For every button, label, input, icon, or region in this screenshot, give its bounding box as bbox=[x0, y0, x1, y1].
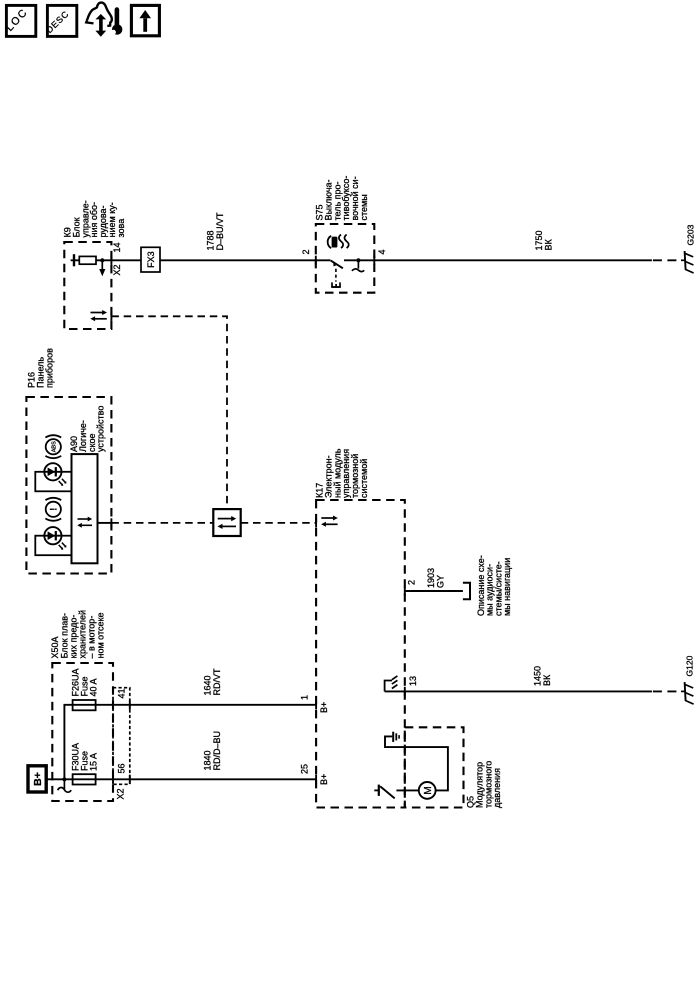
wire 1640 from fuse F26UA to K17 pin 1 bbox=[73, 704, 317, 706]
serial data symbol in K9 bbox=[90, 310, 107, 321]
svg-text:13: 13 bbox=[408, 676, 418, 686]
block X50A fuse block dashed box bbox=[52, 663, 113, 801]
svg-text:56: 56 bbox=[117, 763, 127, 773]
relay contact in K17 bbox=[374, 785, 394, 799]
label wire 1903 GY bbox=[426, 568, 445, 588]
ground hook inside K17 pin 13 bbox=[385, 676, 398, 692]
wire from relay contact to pump motor bbox=[396, 789, 418, 791]
label wire 1450 BK bbox=[533, 666, 552, 686]
svg-text:GY: GY bbox=[435, 575, 445, 588]
fuse F30UA bbox=[73, 774, 96, 784]
icon LOC button bbox=[4, 5, 36, 36]
svg-text:!: ! bbox=[48, 508, 58, 511]
pin tick X2 pin 56 right bbox=[129, 775, 131, 784]
pin tick K17 pin 25 bbox=[315, 775, 317, 784]
svg-text:1: 1 bbox=[300, 695, 310, 700]
pin tick K17 pin 13 bbox=[404, 687, 406, 696]
pin tick S75 pin 2 bbox=[315, 256, 317, 265]
svg-text:устройство: устройство bbox=[96, 406, 106, 452]
LED lamp ABS bbox=[44, 463, 66, 486]
svg-text:15 A: 15 A bbox=[88, 753, 98, 771]
svg-text:X2: X2 bbox=[116, 788, 126, 799]
node splice at B+ feed bbox=[62, 777, 66, 781]
label ground G120 bbox=[685, 655, 695, 676]
pin tick X2 pin 56 left bbox=[112, 775, 114, 784]
svg-text:ABS: ABS bbox=[52, 441, 58, 452]
telltale brake symbol bbox=[45, 498, 61, 521]
label Q5 block name bbox=[466, 761, 503, 808]
label B+ at pin 1 bbox=[319, 702, 329, 713]
svg-text:давления: давления bbox=[492, 768, 502, 808]
block K9 body control module dashed box bbox=[64, 242, 111, 329]
svg-text:FX3: FX3 bbox=[146, 251, 156, 268]
fuse F26UA bbox=[73, 700, 96, 710]
in-line connector with serial data symbol bbox=[213, 509, 240, 536]
actuator dashed link S75 bbox=[335, 269, 337, 282]
svg-text:RD/D–BU: RD/D–BU bbox=[212, 731, 222, 771]
wire from pump motor to earth ground in Q5 bbox=[385, 736, 448, 790]
svg-text:B+: B+ bbox=[319, 702, 329, 713]
label pin 41 bbox=[117, 688, 127, 698]
svg-text:ВК: ВК bbox=[543, 238, 553, 250]
svg-text:системой: системой bbox=[359, 459, 369, 498]
svg-text:G120: G120 bbox=[685, 655, 695, 676]
label A90 device name bbox=[69, 406, 106, 452]
label wire 1788 D-BU/VT bbox=[206, 212, 225, 251]
pin tick K17 pin 1 bbox=[315, 700, 317, 709]
label audio navigation description reference bbox=[476, 555, 512, 616]
label pin 2 S75 bbox=[301, 249, 311, 254]
svg-text:25: 25 bbox=[300, 764, 310, 774]
svg-text:ном отсеке: ном отсеке bbox=[96, 612, 106, 658]
svg-text:M: M bbox=[423, 786, 434, 794]
wire 1903 from K17 pin 2 to audio system reference bbox=[405, 590, 463, 592]
svg-text:B+: B+ bbox=[319, 774, 329, 785]
label wire 1640 RD/VT bbox=[203, 668, 222, 696]
wire B+ feed to fuse F30UA bbox=[46, 778, 72, 780]
terminal B+ battery feed box bbox=[28, 766, 46, 792]
svg-text:4: 4 bbox=[377, 249, 387, 254]
unfused supply squiggle below splice bbox=[58, 779, 72, 792]
traction control icon in S75 bbox=[328, 235, 349, 249]
label pin 14 bbox=[112, 242, 122, 252]
wire 1788 main run from K9 to S75 switch bbox=[74, 259, 331, 261]
resistor element in K9 bbox=[79, 256, 96, 264]
ground G120 bbox=[681, 682, 694, 704]
pump motor M bbox=[419, 782, 436, 799]
pin tick K17 serial entry bbox=[315, 518, 317, 527]
pin tick S75 pin 4 bbox=[373, 256, 375, 265]
indicator lamp cell ABS bbox=[35, 472, 71, 492]
wire 1450 from K17 pin 13 to G120 bbox=[385, 690, 652, 692]
device A90 logic rectangle bbox=[72, 454, 98, 563]
block P16 instrument panel dashed box bbox=[26, 397, 111, 574]
label connector X2 at X50A bbox=[116, 788, 126, 799]
label wire 1840 RD/D-BU bbox=[203, 731, 222, 771]
telltale ABS symbol bbox=[45, 435, 61, 458]
reference bracket audio/navigation description bbox=[463, 583, 470, 600]
pin tick X2 pin 41 left bbox=[112, 700, 114, 709]
wire 1840 from fuse F30UA to K17 pin 25 bbox=[73, 778, 317, 780]
connector X2 of X50A fine dashed box bbox=[113, 688, 130, 785]
terminal bar in K9 bbox=[71, 254, 74, 266]
icon up-arrow button bbox=[131, 5, 159, 35]
pin tick K9 serial stub bbox=[110, 312, 112, 321]
LED lamp brake bbox=[44, 527, 66, 550]
label pin 1 K17 bbox=[300, 695, 310, 700]
svg-text:2: 2 bbox=[407, 580, 417, 585]
svg-text:приборов: приборов bbox=[44, 348, 54, 388]
pin tick X2 pin 41 right bbox=[129, 700, 131, 709]
block S75 switch dashed box bbox=[316, 224, 375, 293]
svg-text:14: 14 bbox=[112, 242, 122, 252]
indicator lamp cell brake bbox=[35, 536, 71, 556]
svg-text:зова: зова bbox=[116, 219, 126, 238]
label pin 25 K17 bbox=[300, 764, 310, 774]
earth ground symbol in Q5 bbox=[393, 732, 399, 742]
label pin 4 S75 bbox=[377, 249, 387, 254]
label K9 block name bbox=[63, 200, 126, 237]
label pin 56 bbox=[117, 763, 127, 773]
serial data symbol in A90 bbox=[77, 517, 92, 528]
svg-text:ВК: ВК bbox=[542, 674, 552, 686]
svg-text:D–BU/VT: D–BU/VT bbox=[215, 212, 225, 251]
detent hook symbol S75 bbox=[352, 260, 364, 271]
svg-text:41: 41 bbox=[117, 688, 127, 698]
label P16 block name bbox=[27, 348, 55, 388]
wire dashed serial data from P16 to junction connector bbox=[111, 522, 213, 524]
label connector X2 at K9 bbox=[112, 264, 122, 275]
svg-text:40 A: 40 A bbox=[88, 678, 98, 696]
block Q5 pressure modulator dashed box bbox=[405, 727, 464, 807]
svg-text:G203: G203 bbox=[686, 224, 696, 245]
node junction in K9 bbox=[100, 258, 104, 262]
svg-text:RD/VT: RD/VT bbox=[212, 668, 222, 696]
wire dashed serial data from junction connector to K17 bbox=[241, 522, 316, 524]
label B+ at pin 25 bbox=[319, 774, 329, 785]
wire 1750 from S75 switch to G203 bbox=[344, 259, 652, 261]
ground G203 bbox=[681, 251, 694, 273]
wire dashed stub to ground G203 bbox=[653, 259, 678, 261]
wire branch up to fuse F26UA bbox=[64, 705, 72, 780]
label ground G203 bbox=[686, 224, 696, 245]
switch blade S75 bbox=[331, 261, 343, 269]
svg-text:стемы: стемы bbox=[359, 194, 369, 220]
svg-text:2: 2 bbox=[301, 249, 311, 254]
label fuse F26UA 40A bbox=[71, 668, 99, 696]
label K17 block name bbox=[315, 448, 370, 498]
serial data symbol in K17 bbox=[321, 516, 338, 527]
node junction S75 detent bbox=[356, 258, 360, 262]
pin tick P16 serial exit bbox=[110, 518, 112, 527]
svg-text:X2: X2 bbox=[112, 264, 122, 275]
wire dashed stub to ground G120 bbox=[653, 690, 678, 692]
pin tick K9 X2-14 bbox=[110, 256, 112, 265]
pin tick K17 pin 2 bbox=[404, 586, 406, 595]
current flow arrow in K9 bbox=[99, 260, 105, 276]
label fuse F30UA 15A bbox=[71, 743, 99, 771]
label X50A block name bbox=[50, 610, 105, 659]
label pin 2 K17 bbox=[407, 580, 417, 585]
in-line fuse FX3 bbox=[141, 247, 160, 272]
block K17 brake control module dashed box bbox=[316, 500, 405, 808]
svg-text:мы навигации: мы навигации bbox=[502, 558, 512, 616]
icon vehicle lift with wrench bbox=[86, 3, 122, 37]
icon DESC button bbox=[44, 5, 77, 36]
label pin 13 K17 bbox=[408, 676, 418, 686]
wire solid stub from A90 to P16 border bbox=[98, 522, 112, 524]
label S75 block name bbox=[315, 176, 370, 221]
label wire 1750 BK bbox=[534, 230, 553, 250]
svg-text:B+: B+ bbox=[32, 772, 44, 786]
wire dashed serial data from K9 to junction connector bbox=[111, 316, 227, 509]
momentary actuator symbol S75 bbox=[331, 282, 341, 287]
